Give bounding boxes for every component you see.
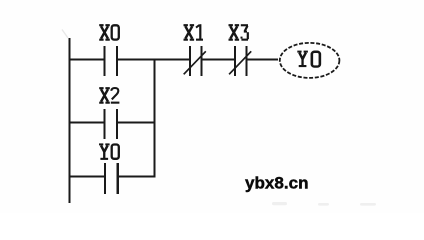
svg-text:ybx8.cn: ybx8.cn (245, 175, 309, 193)
